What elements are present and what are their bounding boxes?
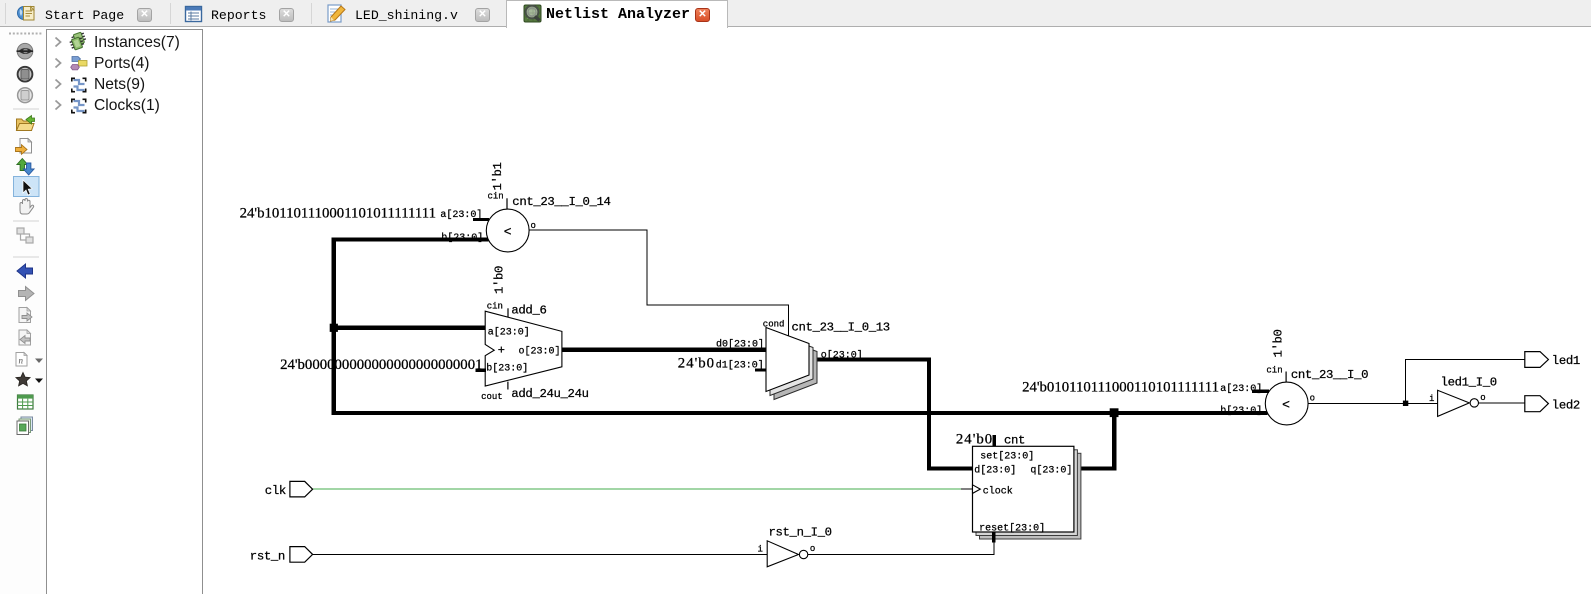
svg-text:cout: cout	[481, 392, 503, 402]
svg-text:add_24u_24u: add_24u_24u	[511, 387, 588, 401]
svg-text:d0[23:0]: d0[23:0]	[716, 338, 764, 350]
tree icon: nets	[71, 78, 87, 93]
svg-text:cnt: cnt	[1004, 434, 1025, 448]
toolbar separator	[13, 220, 39, 222]
toolbar icon 15: star + dropdown	[16, 373, 43, 386]
svg-text:<: <	[1282, 397, 1290, 412]
U3 d1 pin stub	[755, 368, 766, 371]
wire clk net (green)	[313, 488, 961, 490]
svg-text:1'b0: 1'b0	[1272, 329, 1286, 357]
toolbar icon 6: two arrows	[17, 159, 34, 176]
toolbar separator	[13, 108, 39, 110]
tree panel	[46, 29, 203, 594]
svg-text:i: i	[1429, 394, 1434, 404]
wire led1_I_0 o to led2	[1479, 402, 1525, 404]
toolbar icon 2: dark ring	[18, 67, 33, 82]
U4 reset pin stub	[992, 532, 995, 543]
svg-text:cnt_23__I_0_13: cnt_23__I_0_13	[792, 321, 890, 335]
svg-text:24'b101101110001101011111111: 24'b101101110001101011111111	[240, 206, 436, 222]
U2 b pin stub	[476, 369, 486, 372]
toolbar icon 13: page arrow left	[19, 330, 31, 345]
svg-text:led1: led1	[1552, 354, 1580, 368]
tree chevrons	[56, 38, 61, 110]
svg-text:+: +	[498, 344, 505, 358]
left toolbar	[0, 27, 46, 594]
comparator U6 cnt_23__I_0	[1265, 372, 1308, 425]
tree icon: instances chip	[69, 31, 87, 51]
svg-text:cnt_23__I_0_14: cnt_23__I_0_14	[512, 195, 610, 209]
svg-text:24'b010110111000110101111111: 24'b010110111000110101111111	[1022, 379, 1219, 395]
svg-text:<: <	[504, 224, 512, 239]
register U4 cnt	[973, 446, 1081, 539]
toolbar icon 7: selected cursor tool	[14, 177, 40, 197]
junction at comparator2 o	[1403, 401, 1408, 406]
svg-text:b[23:0]: b[23:0]	[486, 363, 528, 375]
toolbar icon 16: table	[18, 395, 34, 409]
wire rst_n net	[313, 554, 768, 556]
tab bar	[0, 0, 1591, 27]
svg-text:set[23:0]: set[23:0]	[980, 451, 1034, 463]
toolbar icon 17: layered pages	[17, 417, 33, 435]
svg-text:24'b0: 24'b0	[956, 432, 993, 448]
svg-text:o: o	[810, 544, 815, 554]
toolbar separator	[13, 256, 39, 258]
port led2	[1525, 396, 1549, 412]
svg-text:24'b000000000000000000000001: 24'b000000000000000000000001	[280, 357, 482, 373]
comparator U1 cnt_23__I_0_14	[486, 198, 529, 252]
wire mux o to register d	[809, 360, 973, 469]
svg-text:clk: clk	[265, 484, 286, 498]
svg-text:b[23:0]: b[23:0]	[1220, 405, 1262, 417]
svg-text:o[23:0]: o[23:0]	[519, 346, 561, 358]
wire register q to bus	[1074, 413, 1114, 469]
svg-text:cin: cin	[488, 192, 504, 202]
svg-text:o: o	[531, 221, 536, 231]
reports tab icon	[186, 7, 202, 22]
wire adder o to mux d0	[562, 348, 766, 352]
port rst_n	[290, 547, 313, 563]
port led1	[1525, 352, 1549, 368]
svg-text:cnt_23__I_0: cnt_23__I_0	[1291, 368, 1368, 382]
inverter U5 rst_n_I_0	[767, 541, 808, 567]
junction at bus to q	[1110, 408, 1119, 417]
svg-text:o: o	[1310, 394, 1315, 404]
toolbar gripper	[9, 33, 43, 35]
toolbar icon 10: back arrow (blue)	[17, 264, 33, 278]
wire branch to led1	[1406, 360, 1525, 404]
svg-text:clock: clock	[983, 486, 1013, 498]
U6 a pin stub	[1252, 390, 1269, 393]
svg-text:a[23:0]: a[23:0]	[1220, 383, 1262, 395]
toolbar icon 1: eye	[17, 43, 34, 59]
svg-text:q[23:0]: q[23:0]	[1030, 465, 1072, 477]
svg-text:cin: cin	[487, 301, 503, 311]
wire net cnt bus (comparator1 b segment)	[334, 240, 1268, 414]
svg-text:a[23:0]: a[23:0]	[488, 327, 530, 339]
start page tab icon	[18, 7, 35, 21]
port clk	[290, 481, 313, 497]
svg-text:add_6: add_6	[511, 304, 546, 318]
svg-text:cond: cond	[763, 320, 785, 330]
toolbar icon 5: page with yellow arrow	[16, 139, 32, 155]
netlist analyzer tab icon	[524, 5, 541, 22]
tree icon: ports	[71, 57, 87, 70]
wire rst_n_I_0 o to register reset	[808, 543, 994, 555]
svg-text:i: i	[758, 545, 763, 555]
toolbar icon 8: hand	[20, 199, 34, 215]
svg-text:1'b0: 1'b0	[493, 266, 507, 294]
toolbar icon 12: page arrow right	[19, 308, 32, 323]
toolbar icon 4: open folder	[17, 116, 35, 131]
wire clk pin stub	[961, 488, 973, 490]
mux U3 cnt_23__I_0_13	[766, 328, 817, 400]
junction at bus to adder a	[330, 324, 338, 332]
toolbar icon 14: page n + dropdown	[16, 353, 43, 367]
wire adder a branch	[334, 326, 485, 330]
tree icon: clocks	[71, 99, 87, 114]
svg-text:rst_n_I_0: rst_n_I_0	[769, 526, 832, 540]
wire comparator2 o net	[1308, 402, 1437, 404]
wire comparator1 o to mux cond	[529, 230, 788, 336]
svg-text:b[23:0]: b[23:0]	[441, 232, 483, 244]
svg-text:cin: cin	[1266, 366, 1282, 376]
adder U2 add_6	[485, 308, 562, 389]
toolbar icon 11: forward arrow (gray)	[19, 287, 35, 301]
toolbar icon 9: network (disabled)	[17, 228, 33, 243]
U1 a pin stub	[473, 218, 489, 221]
svg-text:led1_I_0: led1_I_0	[1441, 376, 1497, 390]
svg-text:1'b1: 1'b1	[491, 162, 505, 190]
svg-text:d[23:0]: d[23:0]	[974, 465, 1016, 477]
inverter U7 led1_I_0	[1438, 390, 1479, 416]
toolbar icon 3: light ring	[18, 88, 33, 103]
svg-text:24'b0: 24'b0	[678, 356, 715, 372]
svg-text:led2: led2	[1552, 398, 1580, 412]
svg-text:o: o	[1480, 393, 1485, 403]
svg-text:o[23:0]: o[23:0]	[821, 350, 863, 362]
U4 set pin stub	[993, 435, 996, 447]
svg-text:reset[23:0]: reset[23:0]	[979, 523, 1045, 535]
svg-text:rst_n: rst_n	[250, 549, 285, 563]
LED_shining.v tab icon	[328, 5, 345, 22]
